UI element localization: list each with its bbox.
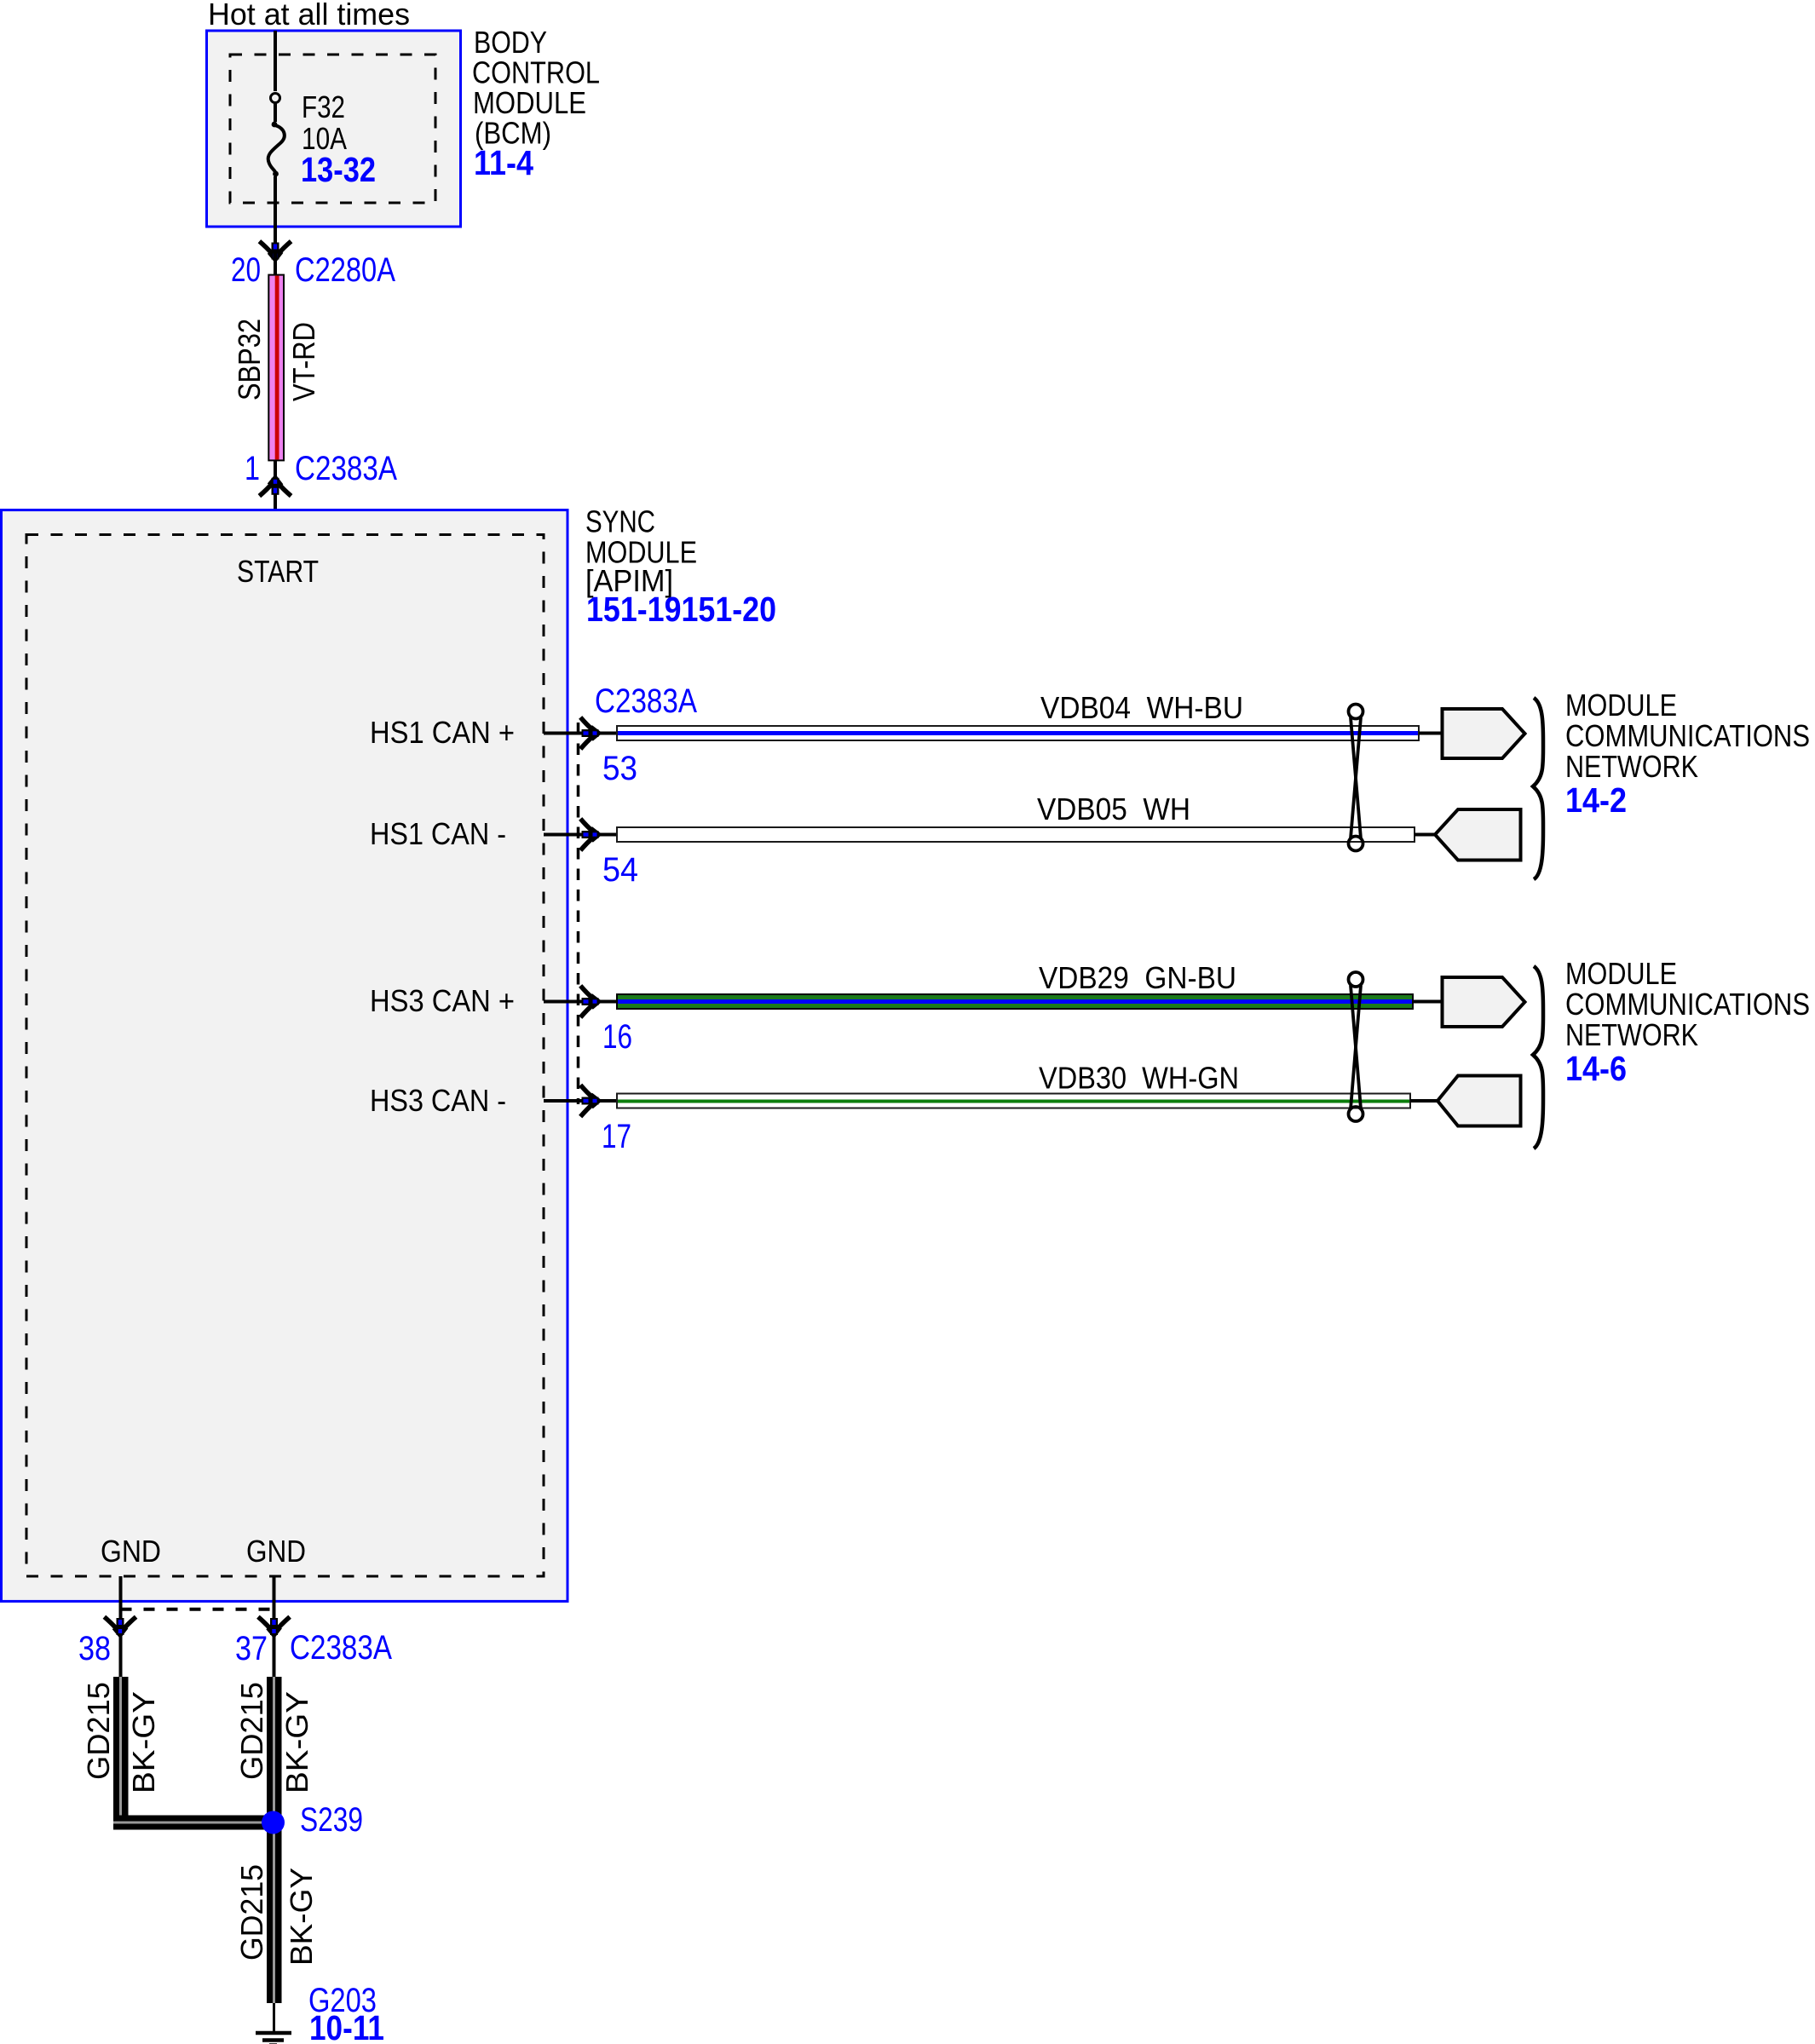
svg-text:16: 16	[602, 1018, 632, 1056]
svg-text:C2383A: C2383A	[290, 1629, 392, 1667]
wire to off-page connector HS1+	[1419, 732, 1443, 735]
svg-text:GD215: GD215	[81, 1682, 116, 1780]
off-page connector (left point) HS1-	[1435, 809, 1521, 861]
svg-text:HS1 CAN +: HS1 CAN +	[370, 715, 515, 750]
wire row pin 54 VDB05 WH	[544, 792, 1437, 889]
module box BCM	[207, 31, 461, 227]
svg-text:SYNC: SYNC	[585, 504, 655, 539]
connector out arrow pin 38	[104, 1617, 135, 1635]
svg-text:COMMUNICATIONS: COMMUNICATIONS	[1565, 718, 1810, 753]
svg-text:NETWORK: NETWORK	[1565, 749, 1698, 784]
connector out arrow pin 54	[580, 819, 598, 850]
wire to ground	[273, 2003, 275, 2033]
svg-text:S239: S239	[300, 1801, 363, 1839]
svg-text:54: 54	[602, 851, 638, 889]
twisted pair symbol HS3	[1349, 972, 1363, 987]
svg-text:GND: GND	[246, 1534, 306, 1569]
svg-text:37: 37	[235, 1630, 268, 1667]
wire into SYNC module	[274, 497, 277, 539]
svg-text:GD215: GD215	[234, 1682, 269, 1780]
connector out arrow pin 37	[258, 1617, 290, 1635]
wire to off-page connector HS3-	[1410, 1099, 1439, 1103]
off-page connector (right point) HS1+	[1443, 709, 1525, 758]
wire row pin 16 VDB29 GN-BU	[544, 960, 1443, 1056]
svg-text:GND: GND	[101, 1534, 161, 1569]
wire: fuse output down to BCM edge	[274, 176, 277, 243]
wire row pin 53 VDB04 WH-BU	[544, 690, 1443, 787]
svg-text:HS3 CAN +: HS3 CAN +	[370, 983, 515, 1018]
svg-text:14-2: 14-2	[1565, 780, 1627, 820]
svg-text:MODULE: MODULE	[1565, 688, 1677, 723]
wire stub pin 54	[544, 833, 617, 837]
svg-text:13-32: 13-32	[301, 150, 376, 189]
module box SYNC MODULE APIM	[2, 510, 568, 1602]
brace MODULE COMMUNICATIONS NETWORK 14-6	[1533, 966, 1543, 1149]
connector in arrow C2383A pin 1	[274, 460, 277, 510]
svg-text:SBP32: SBP32	[232, 319, 267, 400]
twisted pair symbol HS1	[1349, 705, 1363, 719]
wire VDB30 green stripe	[618, 1100, 1409, 1103]
svg-text:BK-GY: BK-GY	[126, 1691, 161, 1794]
svg-text:20: 20	[231, 251, 261, 289]
svg-text:C2383A: C2383A	[295, 450, 397, 487]
svg-text:VDB29 GN-BU: VDB29 GN-BU	[1039, 960, 1236, 995]
svg-text:VT-RD: VT-RD	[286, 322, 321, 401]
svg-text:10-11: 10-11	[309, 2008, 384, 2044]
wire: battery feed into fuse	[274, 31, 277, 91]
svg-text:F32: F32	[302, 89, 345, 124]
splice S239	[262, 1811, 285, 1834]
wire stub pin 16	[544, 1000, 617, 1004]
svg-text:START: START	[237, 554, 319, 589]
wire VDB29 blue stripe	[618, 999, 1412, 1004]
connector dashed line bottom C2383A	[121, 1608, 274, 1611]
svg-text:53: 53	[602, 750, 637, 787]
connector out arrow pin 16	[580, 986, 598, 1017]
svg-text:VDB05 WH: VDB05 WH	[1037, 792, 1190, 826]
svg-text:17: 17	[602, 1118, 631, 1155]
wire row pin 17 VDB30 WH-GN	[544, 1061, 1439, 1156]
wire stub pin 17	[544, 1099, 617, 1103]
svg-text:VDB30 WH-GN: VDB30 WH-GN	[1039, 1061, 1239, 1096]
wire VDB30 WH-GN body	[617, 1094, 1410, 1108]
wire stubs out of GND pins	[119, 1576, 123, 1677]
wire GD215 BK-GY pin 37 (black)	[267, 1677, 282, 2003]
connector out arrow pin 17	[580, 1085, 598, 1116]
svg-text:BK-GY: BK-GY	[279, 1691, 314, 1794]
svg-text:Hot at all times: Hot at all times	[208, 0, 410, 32]
BCM inner dashed border	[230, 55, 435, 203]
svg-text:1: 1	[245, 450, 260, 487]
svg-text:HS3 CAN -: HS3 CAN -	[370, 1083, 506, 1118]
svg-text:151-19151-20: 151-19151-20	[586, 590, 776, 629]
svg-text:NETWORK: NETWORK	[1565, 1017, 1698, 1052]
fuse F32 10A	[271, 94, 280, 103]
wire stub pin 53	[544, 732, 617, 735]
svg-text:C2280A: C2280A	[295, 251, 395, 289]
connector out arrow C2280A pin 20	[259, 241, 291, 259]
svg-text:14-6: 14-6	[1565, 1049, 1627, 1088]
wire GD215 BK-GY pin 38 (black)	[113, 1677, 129, 1822]
svg-text:GD215: GD215	[234, 1864, 269, 1961]
wire VDB29 GN-BU body	[617, 994, 1413, 1009]
connector dashed line right side	[577, 723, 580, 1104]
svg-text:HS1 CAN -: HS1 CAN -	[370, 816, 506, 851]
svg-text:C2383A: C2383A	[595, 682, 697, 720]
off-page connector (left point) HS3-	[1438, 1076, 1521, 1126]
svg-text:MODULE: MODULE	[1565, 956, 1677, 991]
wire to off-page connector HS3+	[1413, 1000, 1443, 1004]
wire to off-page connector HS1-	[1415, 833, 1437, 837]
wire SBP32 VT-RD (violet/red)	[274, 253, 277, 277]
wire VDB04 blue stripe	[618, 731, 1418, 735]
ground G203	[256, 2031, 291, 2035]
wire elbow to splice	[113, 1816, 129, 1830]
APIM inner dashed border	[26, 535, 544, 1577]
wire VDB05 WH body	[617, 827, 1415, 842]
svg-text:BK-GY: BK-GY	[284, 1868, 319, 1966]
connector out arrow pin 53	[580, 717, 598, 749]
wire VDB04 WH-BU body	[617, 726, 1419, 740]
svg-text:38: 38	[78, 1630, 111, 1667]
svg-text:VDB04 WH-BU: VDB04 WH-BU	[1040, 690, 1243, 725]
svg-text:11-4: 11-4	[474, 143, 533, 182]
brace MODULE COMMUNICATIONS NETWORK 14-2	[1533, 698, 1543, 879]
off-page connector (right point) HS3+	[1443, 977, 1525, 1027]
svg-text:COMMUNICATIONS: COMMUNICATIONS	[1565, 987, 1810, 1022]
